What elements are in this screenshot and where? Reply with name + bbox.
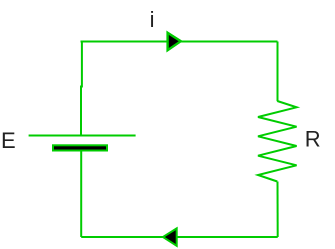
svg-text:i: i (150, 7, 155, 32)
wire left upper (top corner down to battery top plate) (80, 42, 83, 135)
current arrow bottom (points left) (163, 228, 177, 245)
wire bottom (81, 236, 278, 238)
current arrow top (points right) (168, 33, 181, 51)
svg-text:E: E (1, 128, 16, 153)
svg-text:R: R (305, 126, 321, 151)
wire right upper (top corner down to resistor) (277, 42, 279, 102)
battery E top plate (long thin, positive) (29, 135, 136, 137)
resistor R zigzag (258, 101, 297, 182)
wire top (82, 42, 278, 43)
wire left lower (battery bottom plate down to bottom-left corner) (80, 151, 82, 237)
battery E bottom plate (short thick, negative) (53, 145, 107, 150)
wire right lower (resistor bottom to bottom-right corner) (277, 182, 279, 238)
